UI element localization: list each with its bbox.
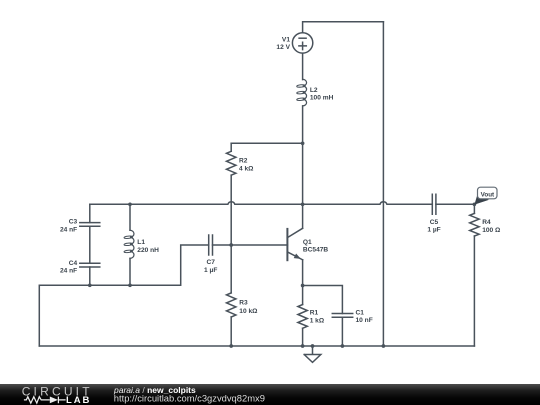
capacitor C7 plates [209,235,213,255]
wire right rail vertical [382,22,384,346]
svg-text:C7: C7 [206,259,215,266]
svg-text:4 kΩ: 4 kΩ [239,166,254,173]
node ground stem [311,344,315,348]
node Vout junction [473,202,477,206]
transistor Q1 emitter arrow [294,254,301,259]
wire emitter to C1 branch [303,286,343,347]
svg-text:C4: C4 [69,260,78,267]
svg-text:R1: R1 [310,309,319,316]
transistor Q1 body [286,229,288,260]
node right rail bottom [382,344,386,348]
resistor R4 [470,213,479,236]
resistor R3 [227,293,236,317]
resistor R1 [298,305,307,329]
svg-text:http://circuitlab.com/c3gzvdvq: http://circuitlab.com/c3gzvdvq82mx9 [114,393,265,404]
svg-text:10 nF: 10 nF [356,317,373,324]
capacitor C4 plates [80,263,100,267]
svg-text:C5: C5 [430,219,439,226]
node R3 bottom [229,344,233,348]
inductor L2 [303,79,307,106]
node R2 top [301,141,305,145]
capacitor C3 plates [80,223,100,227]
svg-text:L2: L2 [310,87,318,94]
svg-text:1 kΩ: 1 kΩ [310,317,325,324]
V1 minus sign [299,37,306,39]
footer logo resistor squiggle and diode [24,397,66,404]
wire emitter to R1 and bottom [302,260,304,346]
wire R4 column [473,204,475,346]
footer bar [0,384,540,405]
wire R2-R3 column [230,143,232,346]
svg-text:R3: R3 [239,300,248,307]
node emitter [301,284,305,288]
svg-text:100 Ω: 100 Ω [482,227,501,234]
svg-text:L1: L1 [137,239,145,246]
svg-text:R4: R4 [482,219,491,226]
node L1 bottom [128,283,132,287]
voltage source V1 circle [292,33,312,53]
capacitor C1 plates [332,314,352,318]
node C4 bottom [88,283,92,287]
V1 plus sign [299,42,306,49]
wire C7 left to tank bottom [39,245,208,346]
svg-text:C3: C3 [69,219,78,226]
resistor R2 [227,151,236,175]
svg-text:10 kΩ: 10 kΩ [239,308,258,315]
Vout flag [474,187,497,204]
svg-text:R2: R2 [239,158,248,165]
svg-text:1 µF: 1 µF [427,226,440,233]
wire top horizontal V1 to right rail [303,22,384,33]
wire bottom ground rail [39,345,474,347]
node R1 bottom [301,344,305,348]
inductor L1 [130,230,134,258]
wire R2 top [231,142,302,144]
wire V1 bottom to L2 [302,53,304,80]
wire C3 C4 column [89,204,91,285]
node collector-tank [301,202,305,206]
svg-text:220 nH: 220 nH [137,247,159,254]
svg-text:Q1: Q1 [303,239,312,246]
svg-text:24 nF: 24 nF [60,267,77,274]
svg-text:1 µF: 1 µF [204,267,217,274]
node base [229,243,233,247]
svg-text:100 mH: 100 mH [310,94,334,101]
svg-text:Vout: Vout [481,191,495,198]
wire base [213,244,288,246]
svg-text:24 nF: 24 nF [60,226,77,233]
wire L1 column [129,204,131,285]
svg-text:12 V: 12 V [276,44,290,51]
capacitor C5 plates [432,194,436,214]
wire L2 bottom to collector [302,106,304,228]
svg-text:LAB: LAB [66,395,91,405]
svg-text:V1: V1 [282,37,290,44]
node L1 top [128,202,132,206]
svg-text:C1: C1 [356,310,365,317]
svg-text:BC547B: BC547B [303,247,329,254]
node C1 bottom [341,344,345,348]
wire tank horizontal with hops [90,202,475,205]
ground symbol [304,346,321,362]
